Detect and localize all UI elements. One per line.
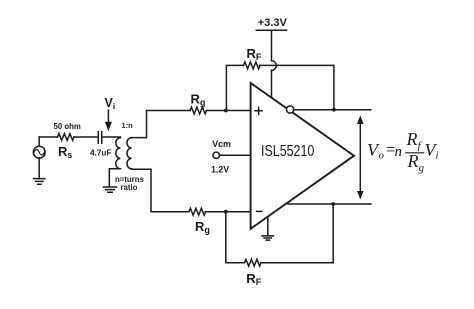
svg-text:n: n [395, 144, 403, 160]
svg-text:+3.3V: +3.3V [258, 17, 288, 29]
svg-text:Vi: Vi [105, 96, 116, 111]
svg-text:g: g [419, 162, 425, 174]
svg-text:Rs: Rs [58, 144, 72, 160]
svg-text:Rg: Rg [195, 219, 210, 235]
svg-text:i: i [436, 150, 439, 162]
svg-text:1.2V: 1.2V [211, 165, 229, 175]
svg-text:50 ohm: 50 ohm [54, 122, 81, 131]
svg-text:Vcm: Vcm [212, 139, 231, 149]
svg-text:1:n: 1:n [122, 121, 134, 130]
svg-text:R: R [406, 129, 418, 149]
svg-text:R: R [407, 151, 419, 171]
svg-text:ratio: ratio [121, 183, 138, 192]
svg-text:Rg: Rg [191, 91, 206, 107]
svg-text:o: o [379, 150, 385, 162]
svg-text:4.7uF: 4.7uF [90, 148, 111, 157]
svg-text:RF: RF [247, 46, 262, 62]
svg-text:ISL55210: ISL55210 [261, 143, 314, 161]
svg-text:RF: RF [246, 271, 261, 287]
